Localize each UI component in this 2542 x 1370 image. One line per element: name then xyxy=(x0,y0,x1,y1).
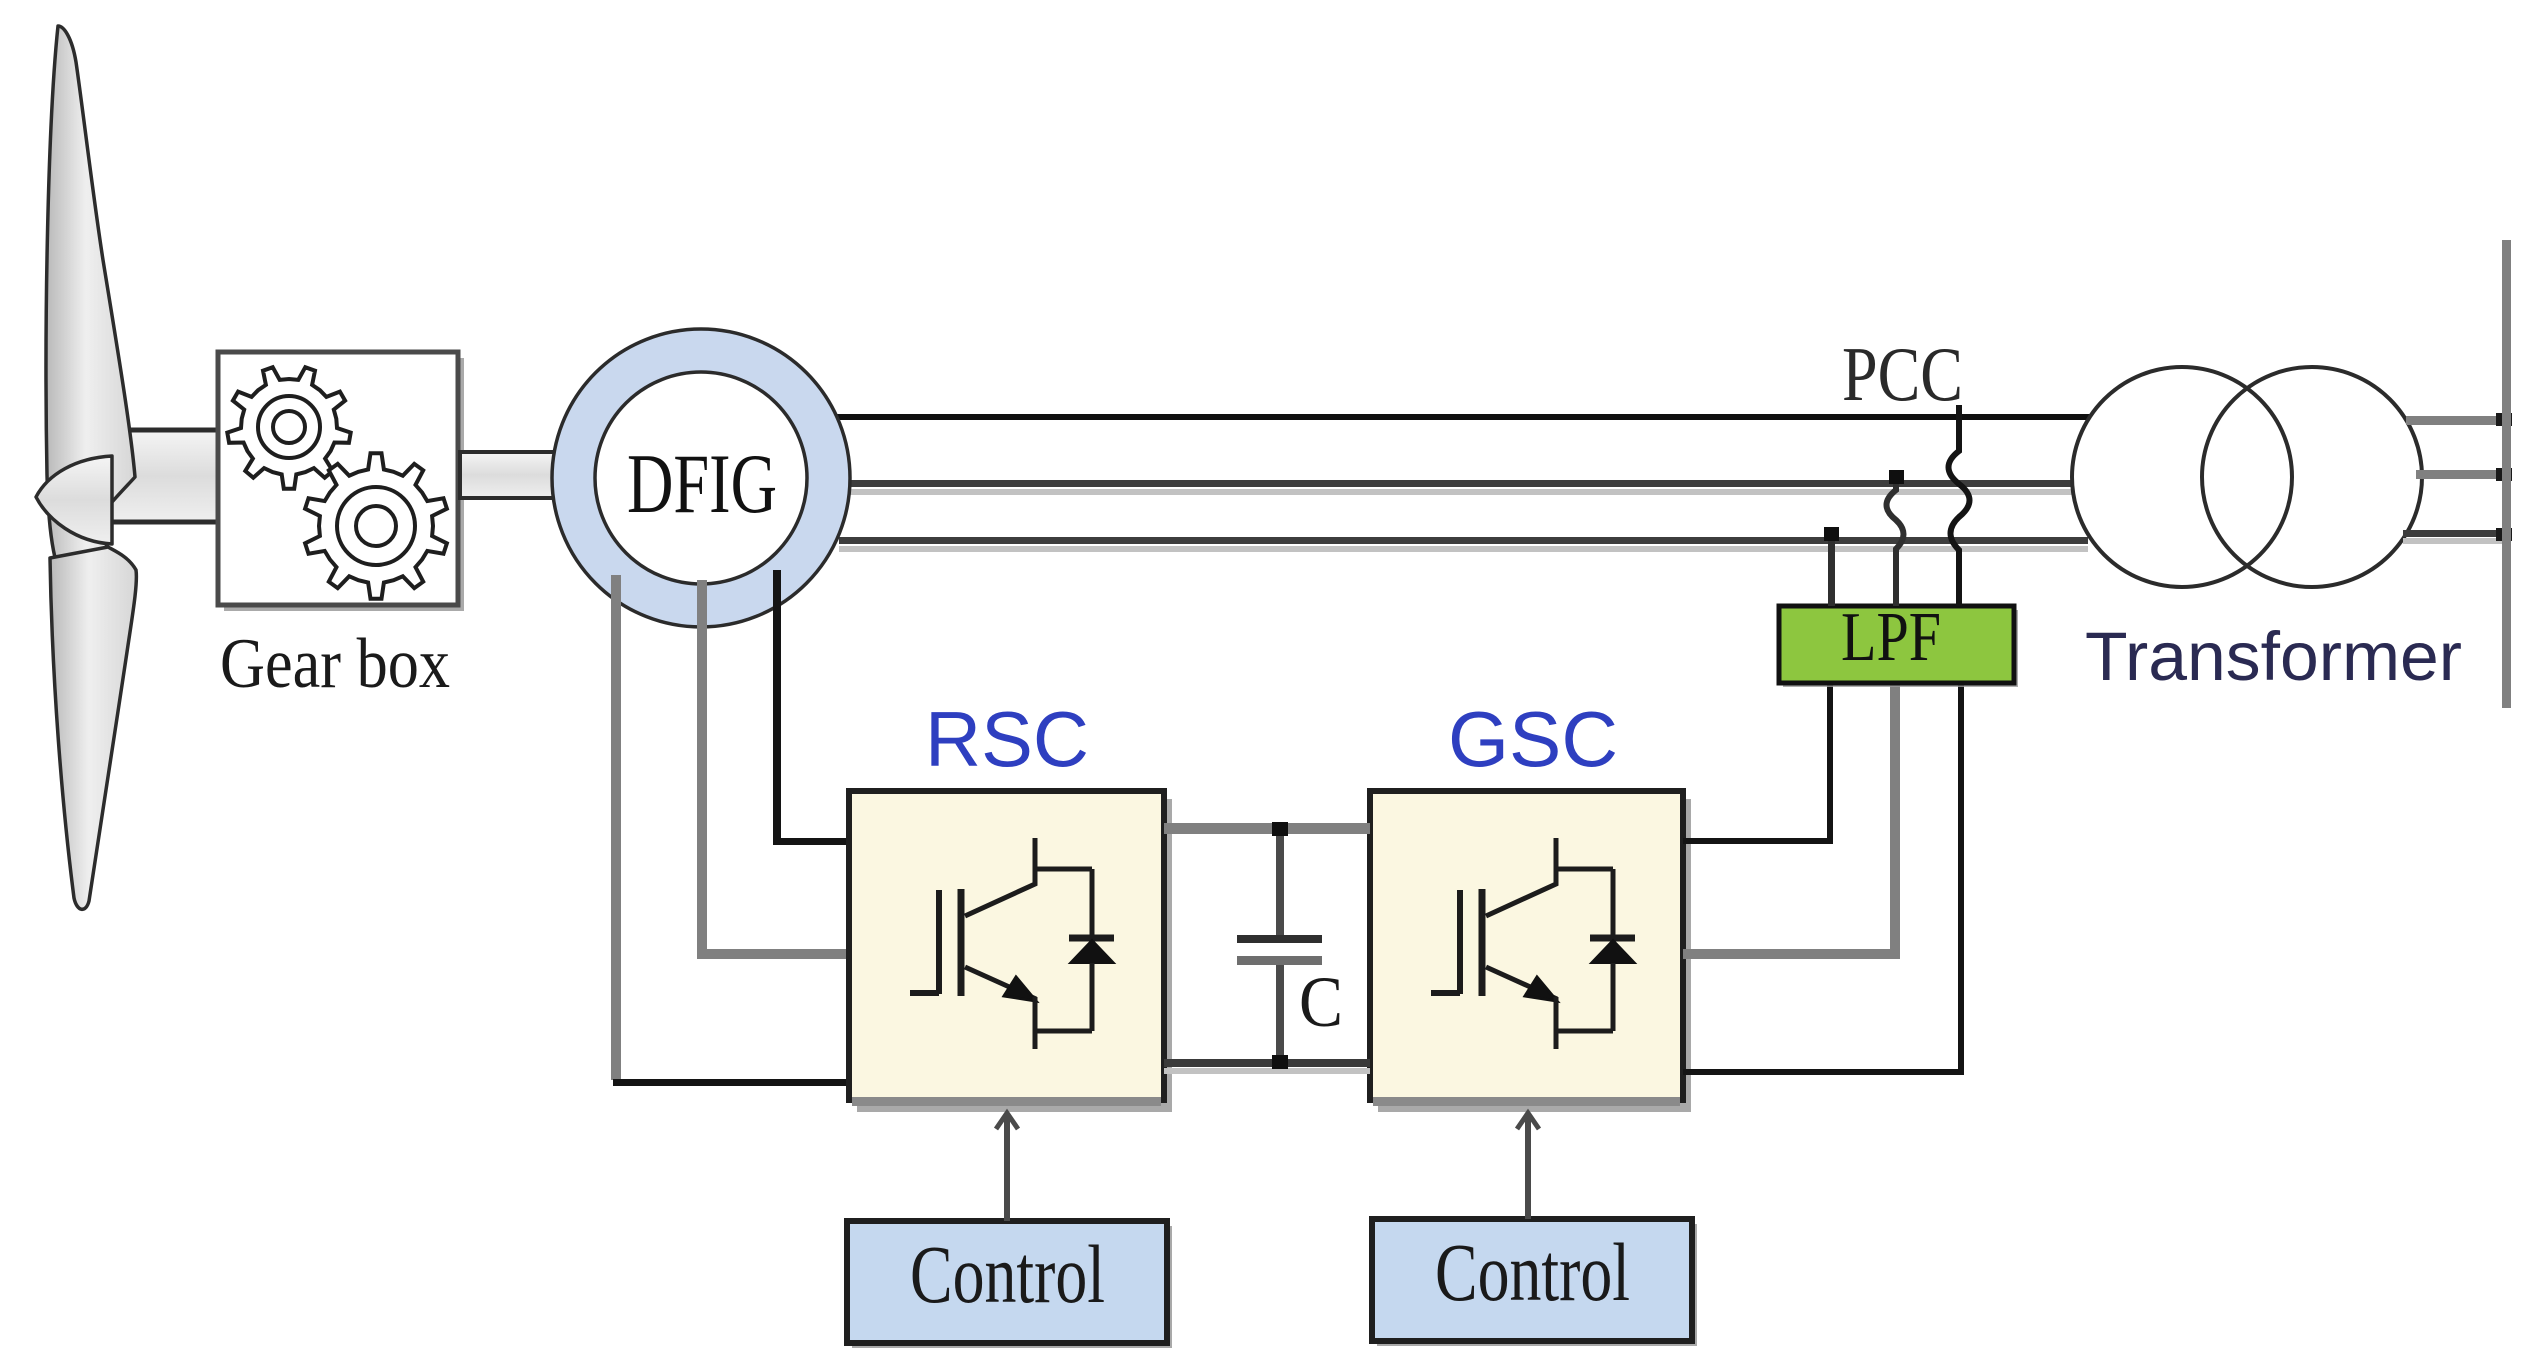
wire: GSC output phase A (top, to LPF leg 1) xyxy=(1683,683,1830,841)
svg-text:Gear box: Gear box xyxy=(220,625,450,703)
svg-text:DFIG: DFIG xyxy=(627,437,777,531)
IGBT with diode (GSC) xyxy=(1431,838,1635,1049)
wire: rotor phase 1 (DFIG to RSC, black) xyxy=(773,570,852,845)
IGBT with diode (RSC) xyxy=(910,838,1114,1049)
svg-text:C: C xyxy=(1299,962,1343,1042)
turbine blade (upper) xyxy=(46,26,135,568)
label: Gear box xyxy=(220,625,450,703)
converter RSC box xyxy=(849,791,1172,1112)
label: C xyxy=(1299,962,1343,1042)
wire: LPF leg 2 to phase B tap (wavy) xyxy=(1887,470,1905,606)
control box (GSC) xyxy=(1372,1219,1697,1346)
wire: LPF leg 1 to phase C tap (straight) xyxy=(1824,527,1839,606)
wire: transformer output B xyxy=(2416,468,2512,481)
label: RSC xyxy=(925,695,1089,783)
arrow: RSC control signal xyxy=(996,1113,1018,1221)
filter LPF box xyxy=(1779,599,2018,687)
svg-text:GSC: GSC xyxy=(1448,695,1618,783)
grid busbar xyxy=(2502,240,2511,708)
svg-text:Control: Control xyxy=(910,1228,1105,1320)
svg-text:LPF: LPF xyxy=(1841,599,1941,676)
wire: DC link top rail xyxy=(1164,823,1370,834)
wire: stator phase line C (bottom, DFIG to transformer) xyxy=(839,537,2088,552)
node PCC tick xyxy=(1956,405,1962,417)
wire: rotor phase 2 (DFIG to RSC, gray) xyxy=(697,580,852,959)
wire: transformer output A (to grid bus) xyxy=(2406,413,2512,426)
secondary shaft (gear box to DFIG) xyxy=(460,452,560,498)
gear 2 (large, lower-right) xyxy=(305,453,447,599)
control box (RSC) xyxy=(847,1221,1172,1348)
wire: GSC output phase B (middle, to LPF leg 2) xyxy=(1683,683,1895,954)
wire: LPF leg 3 to phase A at PCC (wavy) xyxy=(1949,417,1970,606)
svg-text:Control: Control xyxy=(1435,1226,1630,1318)
wire: stator phase line B (middle, DFIG to transformer) xyxy=(848,480,2072,495)
label: PCC xyxy=(1842,331,1963,417)
gear 1 (small, upper-left) xyxy=(227,367,350,489)
wire: DC link bottom rail xyxy=(1164,1059,1370,1074)
wire: transformer output C xyxy=(2403,528,2512,544)
svg-text:RSC: RSC xyxy=(925,695,1089,783)
wire: rotor phase 3 (DFIG to RSC, gray down then black right) xyxy=(611,575,852,1086)
capacitor C (DC link) xyxy=(1237,822,1322,1069)
converter GSC box xyxy=(1370,791,1691,1112)
main shaft (turbine hub to gear box) xyxy=(108,430,220,522)
gear box xyxy=(218,352,464,611)
arrow: GSC control signal xyxy=(1517,1113,1539,1219)
wire: GSC output phase C (bottom, to LPF leg 3) xyxy=(1683,683,1961,1072)
turbine blade (lower) xyxy=(50,547,136,909)
turbine nose cone xyxy=(36,456,112,544)
svg-text:Transformer: Transformer xyxy=(2085,618,2462,695)
svg-text:PCC: PCC xyxy=(1842,331,1963,417)
generator DFIG (stator ring + rotor) xyxy=(552,329,850,627)
transformer (two overlapping circles) xyxy=(2072,367,2422,587)
wire: stator phase line A (top, DFIG to transformer) xyxy=(836,414,2090,420)
label: Transformer xyxy=(2085,618,2462,695)
label: GSC xyxy=(1448,695,1618,783)
